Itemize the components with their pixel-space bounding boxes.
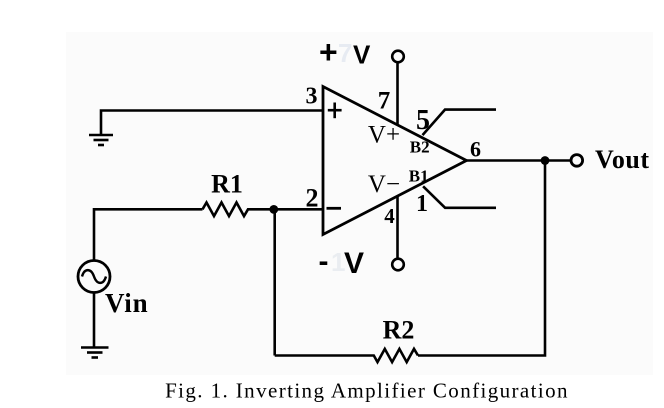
- ground G2: [81, 348, 109, 358]
- svg-text:B1: B1: [409, 166, 429, 185]
- pin 1 lead: [423, 186, 496, 208]
- svg-text:R2: R2: [383, 316, 415, 345]
- feedback wire right vertical: [418, 161, 545, 356]
- svg-text:1: 1: [416, 191, 428, 217]
- svg-text:2: 2: [306, 184, 319, 213]
- wire Vin to ground: [93, 294, 96, 348]
- svg-text:V−: V−: [368, 171, 400, 198]
- scan background: [66, 32, 653, 375]
- svg-text:Fig. 1. Inverting Amplifier Co: Fig. 1. Inverting Amplifier Configuratio…: [165, 379, 569, 403]
- resistor R1: [203, 203, 323, 217]
- svg-text:1: 1: [331, 247, 345, 277]
- svg-text:5: 5: [416, 105, 430, 136]
- svg-text:7: 7: [378, 87, 391, 114]
- svg-text:-: -: [319, 245, 329, 278]
- +V terminal circle: [392, 51, 404, 63]
- ground G1: [89, 135, 113, 145]
- svg-text:V: V: [353, 40, 371, 70]
- -V terminal circle: [392, 259, 404, 271]
- wire ground to pin 3: [101, 111, 323, 135]
- output wire: [467, 159, 571, 162]
- node A junction dot: [269, 205, 278, 214]
- minus input symbol: [327, 207, 342, 210]
- svg-text:4: 4: [384, 204, 395, 228]
- plus input symbol: [328, 103, 342, 119]
- svg-text:B2: B2: [410, 138, 430, 157]
- feedback wire left vertical: [273, 209, 276, 355]
- Vout terminal circle: [571, 155, 583, 167]
- wire Vin to R1 to inverting input: [94, 209, 203, 259]
- svg-text:+: +: [319, 34, 338, 70]
- output junction dot: [541, 156, 550, 165]
- svg-text:V: V: [344, 247, 364, 280]
- svg-text:Vout: Vout: [595, 145, 650, 174]
- resistor R2: [275, 349, 418, 362]
- svg-text:R1: R1: [211, 170, 243, 199]
- pin 4 wire: [396, 196, 399, 257]
- source Vin circle: [78, 261, 110, 293]
- svg-text:3: 3: [306, 84, 318, 110]
- svg-text:6: 6: [470, 137, 481, 162]
- pin 7 wire: [396, 64, 399, 125]
- pin 5 lead: [423, 110, 497, 136]
- svg-text:V+: V+: [368, 122, 400, 149]
- sine symbol: [82, 270, 106, 283]
- svg-text:Vin: Vin: [105, 288, 148, 318]
- op-amp U1: [323, 87, 467, 235]
- svg-text:7: 7: [338, 38, 352, 68]
